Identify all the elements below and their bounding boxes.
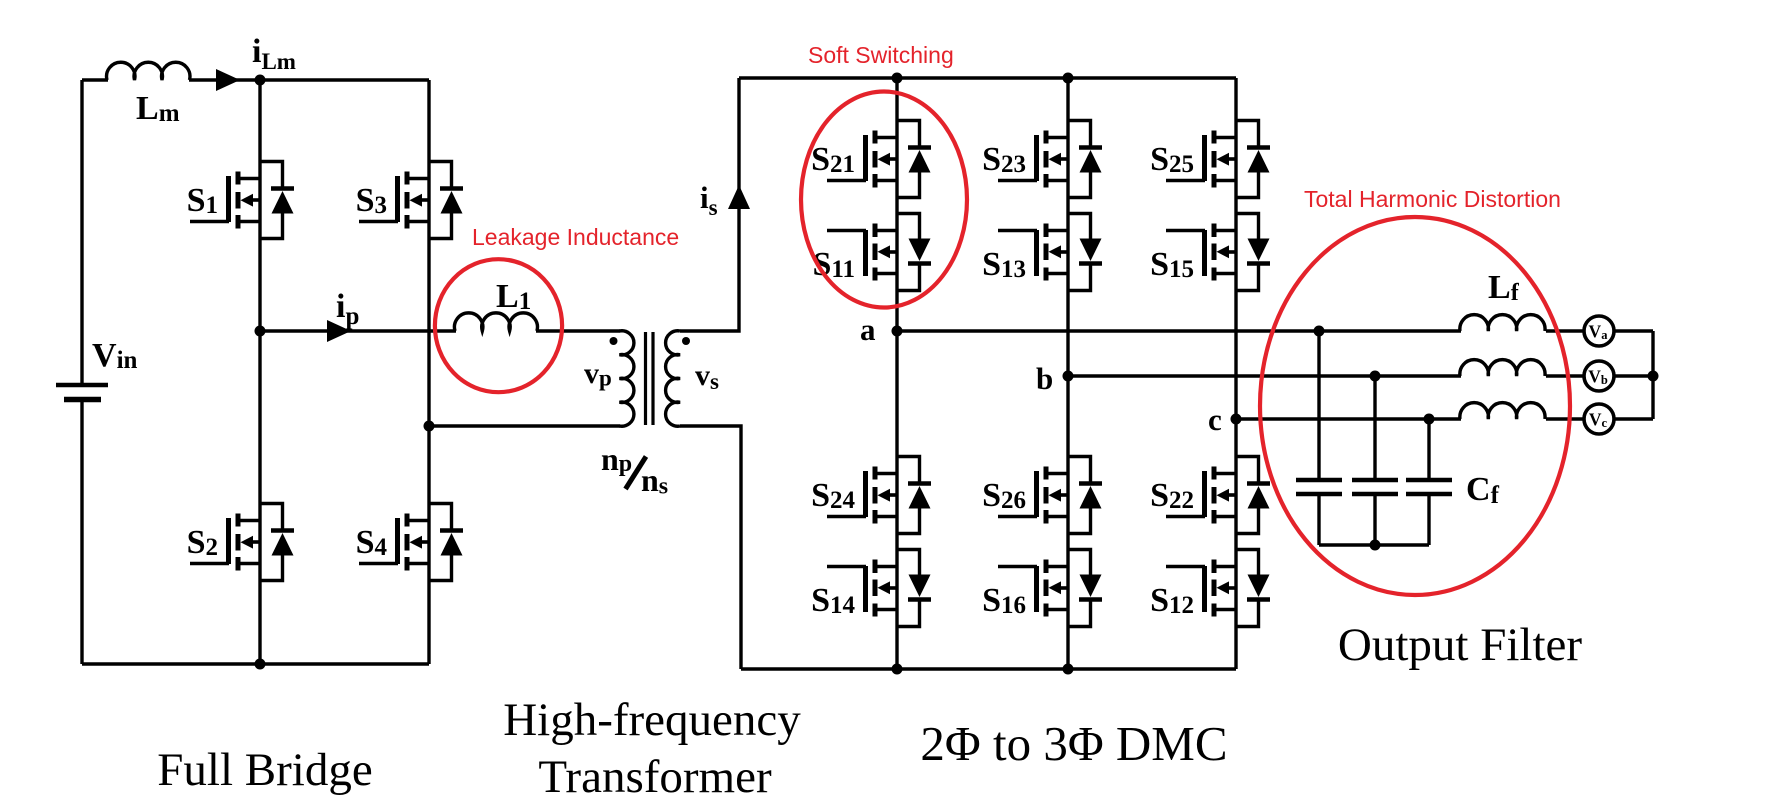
wire top rail (full bridge) [82,78,429,81]
svg-text:S3: S3 [356,182,387,219]
transistor S3 [356,162,463,239]
transistor S24 [811,457,931,534]
transistor S2 [187,504,294,581]
node top rail leg b [1063,73,1074,84]
svg-text:S1: S1 [187,182,218,219]
wire right bus [1651,331,1654,419]
inductor Lm [107,62,190,127]
wire DMC leg a [895,78,898,669]
wire phase b [1068,374,1584,377]
transistor S22 [1150,457,1270,534]
transistor S15 [1150,214,1270,291]
inductor Lf phase a [1460,315,1545,331]
node bottom rail leg a [892,664,903,675]
svg-text:Total Harmonic Distortion: Total Harmonic Distortion [1304,186,1561,212]
svg-text:Vc: Vc [1589,410,1608,431]
svg-text:S15: S15 [1150,246,1194,283]
node right bus [1648,371,1659,382]
svg-text:Vin: Vin [92,337,138,374]
svg-text:S16: S16 [982,582,1026,619]
node primary top tap [255,326,266,337]
arrow ip [327,288,359,342]
transistor S12 [1150,550,1270,627]
svg-text:vp: vp [584,357,612,391]
svg-text:Full Bridge: Full Bridge [157,744,372,796]
svg-text:Lf: Lf [1488,269,1520,306]
node b [1036,361,1074,396]
svg-text:ns: ns [641,462,668,500]
meter Vc [1584,404,1614,434]
svg-text:Soft Switching: Soft Switching [808,42,954,68]
node cap tap c [1424,414,1435,425]
transistor S23 [982,121,1102,198]
node c [1208,402,1242,437]
inductor Lf phase b [1460,360,1545,376]
transformer core [646,332,654,425]
node cap tap a [1314,326,1325,337]
svg-text:Transformer: Transformer [538,751,772,802]
svg-text:Lm: Lm [136,90,180,127]
transistor S11 [812,214,931,291]
wire leg S1/S2 [258,80,261,664]
capacitor Cf phase c [1406,419,1452,545]
svg-text:is: is [700,180,718,220]
svg-text:2Φ to 3Φ DMC: 2Φ to 3Φ DMC [920,716,1227,771]
svg-text:S14: S14 [811,582,855,619]
svg-text:L1: L1 [496,278,531,315]
wire bottom rail (full bridge) [82,662,429,665]
red circle leakage inductance [435,259,562,392]
svg-text:vs: vs [695,359,719,394]
wire ip [260,329,620,332]
inductor Lf phase c [1460,403,1545,419]
wire DMC bottom rail [741,667,1236,670]
svg-text:c: c [1208,402,1222,437]
transformer primary winding vp [584,331,634,426]
wire secondary top lead [680,78,739,331]
arrow iLm [216,33,296,91]
svg-text:S2: S2 [187,524,218,561]
label np/ns turns ratio [601,441,668,500]
transistor S16 [982,550,1102,627]
caption High-frequency Transformer [503,694,801,802]
svg-text:iLm: iLm [252,33,296,74]
svg-text:S24: S24 [811,477,855,514]
meter Va [1584,316,1614,346]
wire meter b to bus [1614,374,1653,377]
svg-text:S21: S21 [811,141,855,178]
transistor S14 [811,550,931,627]
svg-text:Va: Va [1589,322,1609,343]
node cap tap b [1370,371,1381,382]
node top rail leg a [892,73,903,84]
wire DMC top rail [739,76,1236,79]
svg-text:a: a [860,312,876,347]
wire secondary bottom lead [680,426,741,669]
wire left rail lower [80,401,83,664]
svg-text:Leakage Inductance: Leakage Inductance [472,224,679,250]
wire DMC leg b [1066,78,1069,669]
wire left rail upper [80,80,83,383]
svg-text:S26: S26 [982,477,1026,514]
svg-text:S22: S22 [1150,477,1194,514]
red ellipse total harmonic distortion [1260,217,1570,595]
svg-text:S4: S4 [356,524,388,561]
capacitor Cf phase a [1296,331,1342,545]
transistor S26 [982,457,1102,534]
node S2 bottom [255,659,266,670]
svg-text:S25: S25 [1150,141,1194,178]
wire meter c to bus [1614,417,1653,420]
node primary bottom tap [424,421,435,432]
svg-text:Vb: Vb [1588,367,1608,388]
wire DMC leg c [1234,78,1237,669]
meter Vb [1584,361,1614,391]
node a [860,312,903,347]
wire phase a [897,329,1584,332]
transformer secondary winding vs [666,331,719,426]
battery Vin [56,337,138,400]
node iLm junction [255,75,266,86]
transistor S21 [811,121,931,198]
red ellipse soft switching [801,92,967,308]
transistor S1 [187,162,294,239]
svg-text:High-frequency: High-frequency [503,694,801,746]
svg-text:S12: S12 [1150,582,1194,619]
svg-text:Output Filter: Output Filter [1338,619,1582,671]
node bottom rail leg b [1063,664,1074,675]
capacitor Cf phase b [1352,376,1398,545]
svg-text:ip: ip [336,288,359,330]
wire primary bottom lead [429,424,620,427]
transistor S4 [356,504,463,581]
transistor S25 [1150,121,1270,198]
wire phase c [1236,417,1584,420]
svg-text:S13: S13 [982,246,1026,283]
svg-text:S23: S23 [982,141,1026,178]
svg-text:Cf: Cf [1466,471,1500,509]
transistor S13 [982,214,1102,291]
node capacitor common [1370,540,1381,551]
wire capacitor common [1319,543,1429,546]
inductor L1 [454,278,537,331]
svg-text:np: np [601,441,632,477]
wire meter a to bus [1614,329,1653,332]
svg-text:b: b [1036,361,1053,396]
arrow is [700,180,750,220]
wire leg S3/S4 [427,80,430,664]
